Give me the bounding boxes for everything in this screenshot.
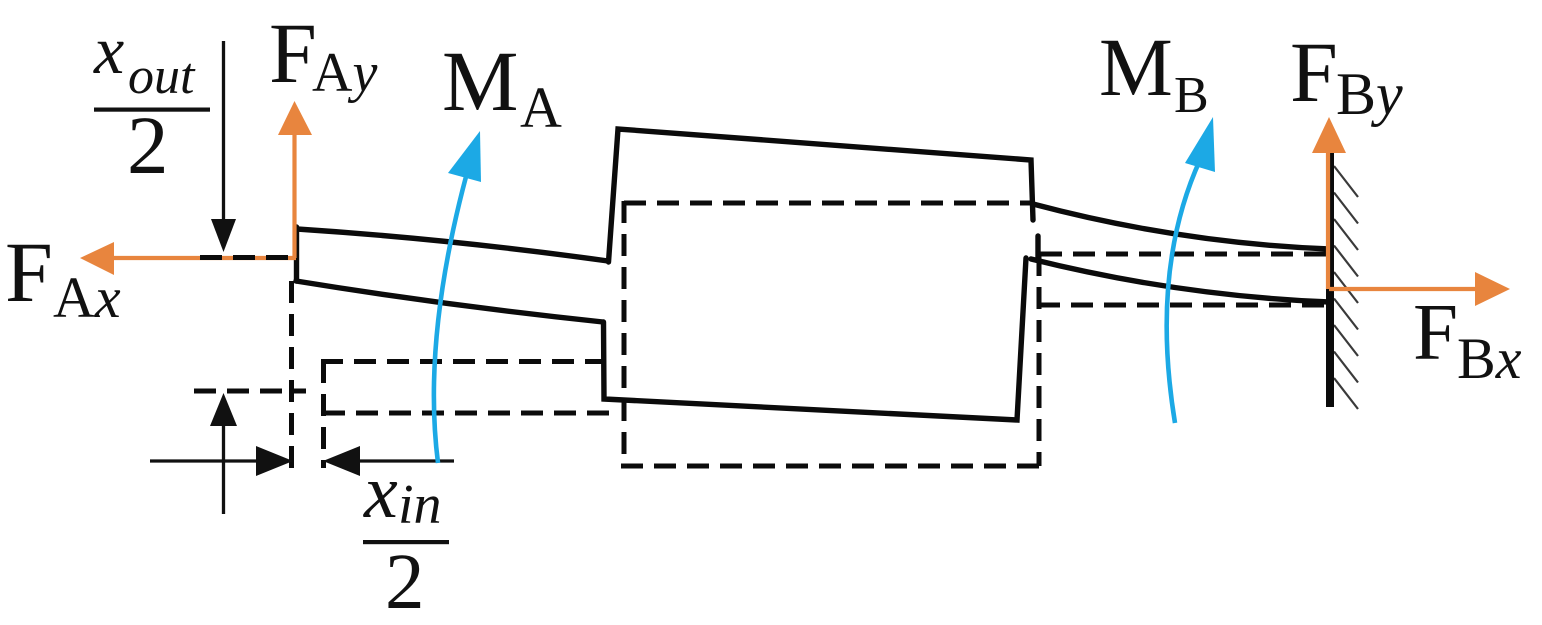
svg-text:2: 2 bbox=[127, 99, 169, 191]
svg-text:B: B bbox=[1174, 67, 1209, 124]
svg-text:A: A bbox=[520, 75, 562, 140]
svg-text:out: out bbox=[128, 48, 196, 105]
svg-text:2: 2 bbox=[385, 539, 425, 625]
svg-text:Ay: Ay bbox=[312, 42, 377, 104]
svg-text:Ax: Ax bbox=[53, 265, 121, 330]
svg-text:F: F bbox=[1413, 287, 1458, 377]
svg-text:x: x bbox=[363, 450, 398, 534]
svg-text:F: F bbox=[269, 5, 317, 101]
svg-text:in: in bbox=[398, 474, 442, 536]
svg-text:Bx: Bx bbox=[1457, 326, 1522, 391]
svg-text:x: x bbox=[93, 12, 124, 88]
svg-text:By: By bbox=[1336, 61, 1403, 127]
svg-text:F: F bbox=[5, 224, 53, 320]
svg-text:M: M bbox=[1099, 21, 1173, 113]
svg-text:F: F bbox=[1290, 24, 1338, 120]
svg-text:M: M bbox=[442, 33, 518, 129]
